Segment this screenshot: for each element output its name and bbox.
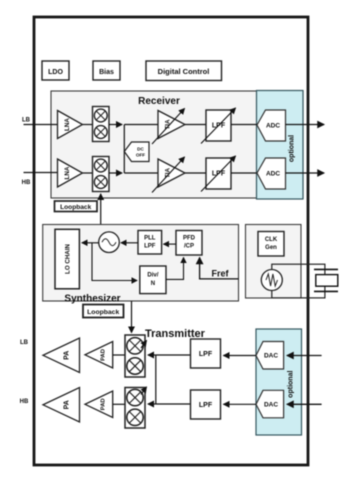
- svg-text:Bias: Bias: [99, 69, 114, 76]
- svg-text:Receiver: Receiver: [138, 96, 180, 107]
- svg-text:DAC: DAC: [264, 401, 278, 408]
- svg-text:Digital Control: Digital Control: [158, 67, 210, 76]
- svg-text:LPF: LPF: [144, 244, 156, 250]
- svg-text:HB: HB: [20, 399, 29, 405]
- svg-text:PA: PA: [63, 400, 70, 409]
- svg-text:Gen: Gen: [265, 245, 277, 251]
- svg-text:DC: DC: [137, 147, 144, 152]
- svg-text:PAD: PAD: [101, 398, 107, 410]
- svg-text:Fref: Fref: [211, 269, 229, 279]
- svg-text:CLK: CLK: [265, 237, 278, 243]
- svg-text:LPF: LPF: [212, 123, 226, 130]
- svg-text:DAC: DAC: [264, 353, 278, 360]
- svg-text:N: N: [151, 281, 155, 287]
- svg-text:LB: LB: [22, 118, 31, 124]
- svg-text:Loopback: Loopback: [60, 204, 91, 211]
- svg-text:Synthesizer: Synthesizer: [64, 294, 120, 305]
- svg-text:/CP: /CP: [184, 244, 194, 250]
- svg-text:HB: HB: [22, 180, 31, 186]
- svg-text:PAD: PAD: [101, 349, 107, 361]
- svg-text:Transmitter: Transmitter: [145, 328, 206, 340]
- svg-text:LNA: LNA: [64, 166, 71, 179]
- svg-text:LDO: LDO: [48, 69, 63, 76]
- svg-text:PLL: PLL: [144, 236, 156, 242]
- svg-text:optional: optional: [288, 371, 295, 398]
- svg-text:PFD: PFD: [183, 236, 196, 242]
- svg-text:LB: LB: [20, 340, 29, 346]
- svg-text:OFF: OFF: [136, 153, 145, 158]
- svg-text:LO CHAIN: LO CHAIN: [64, 244, 71, 274]
- svg-text:LNA: LNA: [64, 118, 71, 131]
- svg-text:PA: PA: [63, 351, 70, 360]
- svg-text:Loopback: Loopback: [87, 309, 119, 316]
- svg-text:ADC: ADC: [266, 123, 280, 130]
- svg-text:optional: optional: [289, 135, 296, 162]
- svg-text:LPF: LPF: [212, 171, 226, 178]
- svg-text:LPF: LPF: [199, 351, 213, 358]
- svg-text:Div/: Div/: [147, 273, 158, 279]
- svg-text:LPF: LPF: [199, 402, 213, 409]
- svg-text:ADC: ADC: [266, 171, 280, 178]
